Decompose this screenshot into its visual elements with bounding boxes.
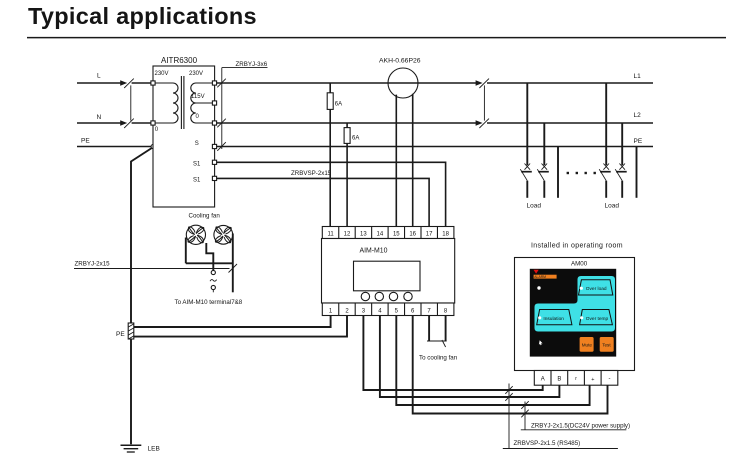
svg-text:Over temp: Over temp: [586, 316, 609, 322]
wire terminal 8 down: [445, 316, 447, 342]
cable DC24V slash 2: [521, 410, 528, 418]
svg-text:A: A: [541, 377, 545, 383]
cable RS485 label line: [503, 448, 618, 450]
load group 2 pole B breaker: [615, 164, 627, 198]
fan motor M2: [214, 225, 233, 244]
svg-text:Insulation: Insulation: [543, 316, 564, 322]
dots between load groups: [567, 172, 569, 174]
fan connector stem: [212, 290, 214, 293]
cable ZRBYJ-2x1.5 DC24V marker vertical: [524, 402, 526, 430]
screen button Mute: [580, 337, 594, 352]
wire N feeder slash: [124, 119, 134, 128]
cable marker right slash L2: [479, 119, 489, 128]
wire terminal 4 to display B: [380, 316, 560, 398]
cable ZRBYJ-2x15 slash: [229, 264, 238, 273]
terminal primary 230V: [151, 81, 155, 85]
fan connector plug upper: [211, 270, 215, 274]
wire L feeder slash: [124, 79, 134, 88]
wire terminal 2 to PE bar: [134, 316, 347, 337]
wire N feeder: [77, 122, 121, 124]
svg-text:230V: 230V: [155, 71, 169, 77]
load group 1 pole B wire: [543, 123, 545, 165]
svg-text:To AIM-M10 terminal7&8: To AIM-M10 terminal7&8: [175, 299, 243, 306]
svg-text:ZRBVSP-2x15: ZRBVSP-2x15: [291, 170, 332, 177]
svg-text:PE: PE: [634, 138, 643, 145]
wire CT lead to terminal 16: [412, 94, 414, 227]
screen button Insulation: [537, 310, 572, 325]
cable marker right arrow L1: [476, 80, 483, 85]
fan wiring left lead: [185, 238, 187, 264]
svg-text:PE: PE: [81, 138, 90, 145]
wire L feeder: [77, 82, 121, 84]
cable DC24V label line: [521, 429, 627, 431]
terminal S1 lower: [212, 176, 216, 180]
cable marker left vertical: [130, 85, 132, 120]
labels display terminals A B r + -: [541, 376, 611, 383]
cable ZRBVSP-2x1.5 RS485 marker vertical: [508, 384, 510, 449]
svg-text:18: 18: [442, 232, 449, 238]
cable ZRBYJ-3x6 marker slash L1: [217, 79, 226, 88]
transformer AITR6300 box: [153, 66, 215, 207]
svg-text:PE: PE: [116, 331, 125, 338]
transformer core: [180, 76, 182, 129]
AIM-M10 bottom terminal row: [322, 303, 454, 316]
labels terminals 1-8: [329, 308, 448, 314]
AIM-M10 button 3: [389, 292, 397, 300]
fan wiring right lead: [232, 234, 234, 293]
wire fuse branch 1 to terminal 11: [329, 83, 331, 227]
svg-text:To cooling fan: To cooling fan: [419, 355, 458, 362]
svg-text:6A: 6A: [352, 136, 359, 142]
svg-text:ALARM: ALARM: [534, 275, 546, 279]
cable ZRBYJ-3x6 marker slash PE: [217, 142, 226, 151]
cable ZRBYJ-3x6 marker slash L2: [217, 119, 226, 128]
terminal secondary 0 / L2: [212, 121, 216, 125]
wire terminal 5 to display +: [396, 316, 589, 406]
screen button Over load: [579, 280, 613, 295]
svg-text:N: N: [97, 114, 102, 121]
svg-text:13: 13: [360, 232, 367, 238]
terminal secondary 115V: [212, 101, 216, 105]
svg-text:+: +: [591, 377, 594, 383]
fan connector plug lower: [211, 285, 215, 289]
wire N to transformer: [132, 122, 153, 124]
display AM00 outer box: [515, 258, 635, 371]
svg-text:ZRBYJ-2x15: ZRBYJ-2x15: [75, 261, 111, 268]
wire S1 lower to terminal 17: [217, 178, 430, 226]
load group 1 pole A wire: [526, 83, 528, 165]
svg-text:Load: Load: [527, 203, 542, 210]
cable RS485 slash 1: [505, 386, 512, 394]
wire L1 bus left part: [217, 82, 477, 84]
cable marker right slash L1: [479, 79, 489, 88]
svg-text:Load: Load: [605, 203, 620, 210]
fuse F1: [327, 93, 333, 110]
load group 1 PE drop: [557, 147, 559, 198]
cable DC24V slash 1: [521, 401, 528, 409]
svg-text:S: S: [195, 141, 199, 147]
wire L1 bus right part: [487, 82, 653, 84]
CT AKH-0.66P26 circle: [388, 68, 418, 98]
fan motor M1: [186, 225, 205, 244]
wire terminal 6 to display -: [413, 316, 608, 414]
cable marker right vertical: [483, 85, 485, 120]
AIM-M10 button 1: [361, 292, 369, 300]
svg-text:6A: 6A: [335, 102, 342, 108]
fan connector tilde: [210, 280, 217, 282]
svg-text:Cooling fan: Cooling fan: [189, 213, 221, 220]
svg-text:ZRBVSP-2x1.5 (RS485): ZRBVSP-2x1.5 (RS485): [514, 440, 581, 447]
wire L feeder arrow: [120, 80, 127, 85]
display terminal row: [534, 371, 618, 386]
svg-text:S1: S1: [193, 178, 201, 184]
wire L to transformer: [132, 82, 153, 84]
screen alarm triangle icon: [534, 270, 539, 274]
labels terminals 11-18: [327, 232, 449, 238]
svg-text:AITR6300: AITR6300: [161, 56, 198, 65]
svg-text:AKH-0.66P26: AKH-0.66P26: [379, 58, 421, 65]
svg-text:Installed in operating room: Installed in operating room: [531, 242, 623, 249]
PE busbar terminal block: [128, 323, 134, 339]
cable ZRBYJ-3x6 label line: [222, 67, 268, 69]
cable RS485 slash 2: [505, 393, 512, 401]
cable marker right arrow L2: [476, 120, 483, 125]
load group 2 pole A breaker: [599, 164, 611, 198]
svg-text:Mute: Mute: [582, 343, 593, 348]
load group 2 PE drop: [636, 147, 638, 198]
title rule: [27, 37, 726, 39]
load group 1 pole A breaker: [520, 164, 532, 198]
svg-text:Test: Test: [602, 343, 611, 348]
transformer secondary winding: [191, 83, 212, 123]
svg-text:12: 12: [344, 232, 351, 238]
svg-text:ZRBYJ-2x1.5(DC24V power supply: ZRBYJ-2x1.5(DC24V power supply): [531, 422, 630, 429]
svg-text:115V: 115V: [191, 94, 205, 100]
transformer primary winding: [155, 83, 178, 123]
AIM-M10 button 4: [404, 292, 412, 300]
wire terminal 1 to PE bar: [134, 316, 331, 328]
screen cyan panel: [535, 276, 616, 332]
AIM-M10 button 2: [375, 292, 383, 300]
svg-text:AIM-M10: AIM-M10: [360, 248, 388, 255]
terminal secondary 230V: [212, 81, 216, 85]
svg-text:15: 15: [393, 232, 400, 238]
svg-text:Over load: Over load: [586, 286, 607, 292]
svg-text:16: 16: [409, 232, 416, 238]
terminal S1 upper: [212, 160, 216, 164]
svg-text:L: L: [97, 73, 101, 80]
svg-text:Typical applications: Typical applications: [28, 3, 257, 29]
svg-text:B: B: [557, 377, 561, 383]
svg-text:11: 11: [327, 232, 334, 238]
fan wiring step between fans: [206, 243, 213, 270]
node PE at transformer corner: [151, 144, 155, 148]
wire terminal 7 down: [428, 316, 430, 342]
AIM-M10 body: [322, 239, 455, 304]
wire L2 bus left part: [217, 122, 477, 124]
screen cursor: [539, 340, 543, 345]
svg-text:17: 17: [426, 232, 433, 238]
terminal S: [212, 144, 216, 148]
load group 2 pole B wire: [621, 123, 623, 165]
screen button Over temp: [580, 310, 613, 325]
fuse F2: [344, 128, 350, 144]
svg-text:ZRBYJ-3x6: ZRBYJ-3x6: [236, 61, 268, 68]
svg-text:L2: L2: [634, 112, 642, 119]
svg-text:-: -: [609, 376, 611, 382]
AIM-M10 top terminal row: [322, 227, 454, 239]
screen status dot: [537, 286, 540, 289]
tick joining 7 and 8: [427, 340, 447, 347]
cable ZRBYJ-3x6 marker vertical: [221, 68, 223, 149]
svg-text:LEB: LEB: [148, 446, 160, 453]
wire CT lead to terminal 15: [395, 95, 397, 227]
AIM-M10 display: [354, 261, 421, 291]
wire PE feeder: [77, 146, 151, 148]
cable ZRBYJ-2x15 label line: [74, 268, 230, 270]
screen alarm bar: [534, 275, 557, 279]
screen button Test: [600, 337, 614, 352]
fan wiring bottom bus: [186, 262, 233, 264]
svg-text:14: 14: [377, 232, 384, 238]
wire fuse branch 2 to terminal 12: [346, 123, 348, 227]
load group 1 pole B breaker: [537, 164, 549, 198]
wire PE bus: [217, 146, 653, 148]
PE busbar hatch: [128, 324, 133, 339]
ground LEB: [121, 445, 142, 452]
svg-text:AM00: AM00: [571, 260, 588, 267]
wire N feeder arrow: [120, 120, 127, 125]
load group 2 pole A wire: [605, 83, 607, 165]
wire terminal 3 to display A: [363, 316, 542, 391]
wire S1 upper to terminal 18: [217, 162, 446, 226]
terminal primary 0: [151, 121, 155, 125]
wire PE drop diagonal and down: [131, 148, 152, 444]
display screen: [530, 269, 616, 357]
svg-text:L1: L1: [634, 73, 642, 80]
svg-text:S1: S1: [193, 162, 201, 168]
svg-text:230V: 230V: [189, 71, 203, 77]
wire L2 bus right part: [487, 122, 653, 124]
